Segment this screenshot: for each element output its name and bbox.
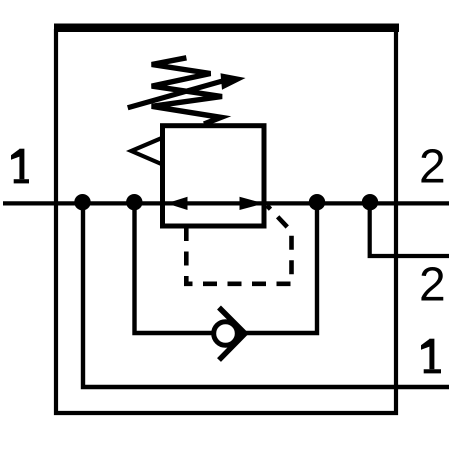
wire: branch from node D down and right to secondary port 2 [370,203,449,256]
wire: main flow line from port 1 (left) to port 2 (right) [3,201,449,205]
flow arrowhead pointing left inside body [167,197,188,210]
flow arrowhead pointing right inside body [240,197,265,210]
port label 1 (left inlet) [11,149,29,184]
check valve circle [214,322,238,346]
node C junction dot [309,194,325,210]
regulator valve body U1 (square) [163,126,265,226]
adjustment arrow head [221,73,246,90]
vent triangle on left of body (relieving exhaust) [131,138,162,165]
enclosure frame thick top bar [54,24,399,33]
check valve seat chevron [219,308,245,361]
spring (zigzag) above regulator body [152,58,222,124]
enclosure frame (left, bottom, right edges) [56,29,396,413]
pilot line (dashed) from outlet to regulator diaphragm [186,206,291,284]
svg-text:2: 2 [419,141,446,194]
adjustment arrow shaft across spring [128,80,226,108]
node A junction dot [74,194,90,210]
port label 1 (lower right) [421,339,441,374]
svg-text:2: 2 [419,258,446,311]
wire: check valve branch (node B down, across, up to node C) [135,203,318,333]
redraw main line inside body over white fill [163,201,265,205]
node D junction dot [362,194,378,210]
node B junction dot [126,194,142,210]
wire: bypass line from node A down and right to lower port 1 [83,203,449,387]
